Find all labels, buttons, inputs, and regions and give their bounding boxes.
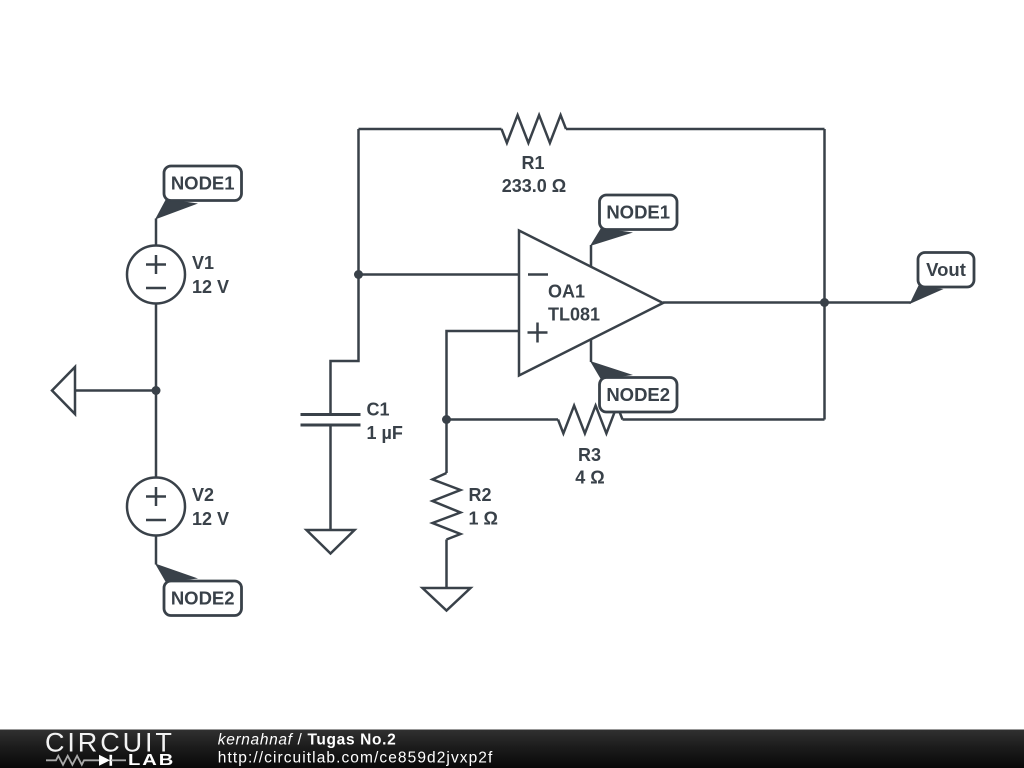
node flag NODE1 (op-amp V+) (590, 195, 677, 246)
svg-text:R2: R2 (469, 485, 492, 505)
wire op-amp non-inverting input (447, 331, 520, 420)
svg-text:R3: R3 (578, 445, 601, 465)
resistor R2 (433, 420, 498, 589)
footer url text (218, 750, 494, 767)
footer bar (0, 730, 1024, 768)
wire C1 to ground (329, 425, 332, 530)
ground (left-pointing) (52, 367, 75, 414)
wire R3 left (447, 418, 559, 421)
junction at R2 top (442, 415, 451, 424)
wire top feedback right (566, 128, 825, 131)
svg-text:LAB: LAB (128, 751, 175, 768)
voltage source V2 (127, 478, 229, 536)
svg-text:NODE2: NODE2 (606, 384, 670, 405)
node flag NODE1 (left) (155, 166, 242, 220)
wire top feedback left (359, 128, 502, 131)
resistor R3 (558, 406, 623, 488)
wire NODE1 flag to V1 top (155, 219, 158, 247)
svg-text:TL081: TL081 (548, 305, 600, 325)
svg-text:233.0 Ω: 233.0 Ω (502, 176, 566, 196)
CircuitLab logo symbol (resistor + diode) (46, 755, 126, 766)
op-amp V- pin stub (590, 339, 593, 362)
svg-text:http://circuitlab.com/ce859d2j: http://circuitlab.com/ce859d2jvxp2f (218, 750, 494, 767)
svg-text:1 µF: 1 µF (367, 423, 403, 443)
op-amp V+ pin stub (590, 245, 593, 267)
junction dot at ground node (152, 386, 161, 395)
capacitor C1 (301, 400, 403, 444)
wire op-amp output (663, 301, 911, 304)
svg-text:12 V: 12 V (192, 509, 229, 529)
svg-text:NODE1: NODE1 (606, 202, 670, 223)
svg-text:1 Ω: 1 Ω (469, 509, 498, 529)
node flag Vout (910, 253, 975, 305)
svg-text:kernahnaf / Tugas No.2: kernahnaf / Tugas No.2 (218, 732, 397, 749)
wire to op-amp inverting input (359, 273, 520, 276)
junction at inverting input (354, 270, 363, 279)
node flag NODE2 (op-amp V-) (590, 361, 677, 412)
CircuitLab logo CIRCUIT (45, 728, 175, 758)
footer title text (218, 732, 397, 749)
svg-text:4 Ω: 4 Ω (575, 468, 604, 488)
svg-text:NODE2: NODE2 (171, 588, 235, 609)
op-amp OA1 (519, 231, 663, 376)
wire right vertical feedback (823, 129, 826, 420)
svg-text:Vout: Vout (926, 259, 966, 280)
svg-text:12 V: 12 V (192, 277, 229, 297)
svg-text:OA1: OA1 (548, 282, 585, 302)
junction at output column (820, 298, 829, 307)
wire V2 bottom to NODE2 flag (155, 536, 158, 565)
wire V1 bottom to V2 top (155, 304, 158, 478)
svg-text:C1: C1 (367, 400, 390, 420)
svg-text:V1: V1 (192, 253, 214, 273)
voltage source V1 (127, 246, 229, 304)
svg-text:R1: R1 (521, 153, 544, 173)
svg-text:NODE1: NODE1 (171, 173, 235, 194)
wire ground stub to node (75, 389, 156, 392)
wire R3 right (623, 418, 825, 421)
node flag NODE2 (left) (155, 564, 242, 616)
resistor R1 (502, 115, 567, 196)
ground (below R2) (423, 588, 471, 611)
svg-text:V2: V2 (192, 485, 214, 505)
wire left vertical riser (inverting input column) (331, 129, 359, 415)
CircuitLab logo LAB (128, 751, 175, 768)
ground (below C1) (307, 530, 355, 554)
